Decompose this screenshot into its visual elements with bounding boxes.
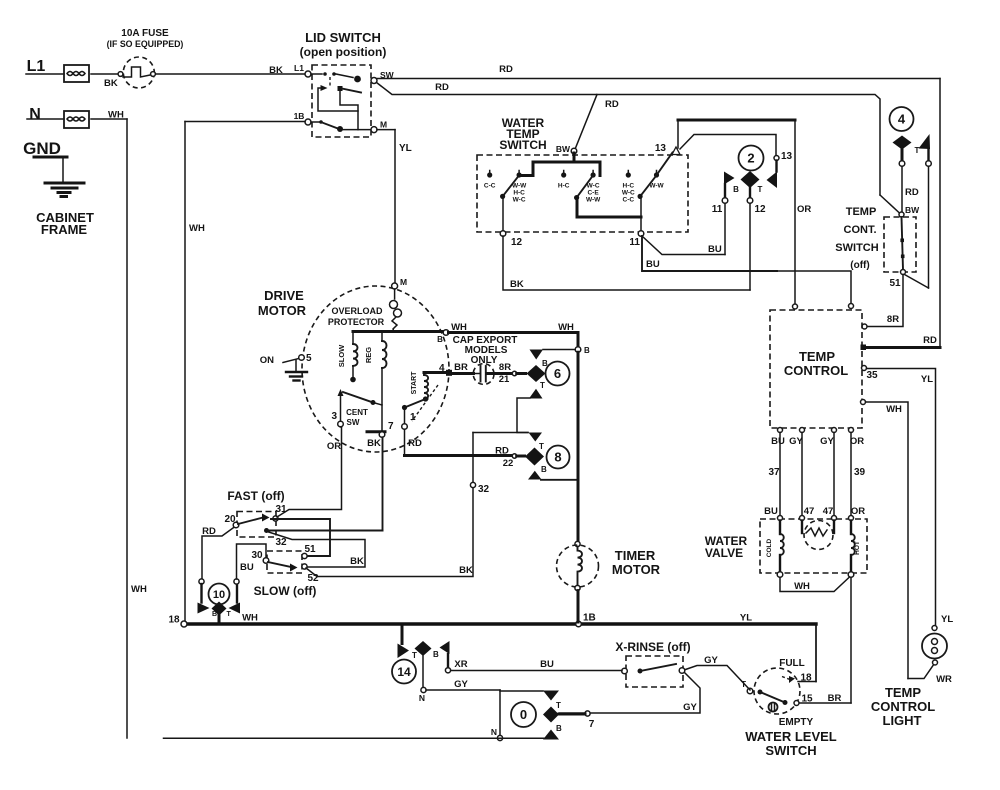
- svg-text:WH: WH: [131, 584, 147, 595]
- svg-text:C-C: C-C: [623, 197, 635, 204]
- svg-text:SWITCH: SWITCH: [765, 743, 816, 758]
- svg-text:M: M: [400, 277, 407, 287]
- svg-text:B: B: [556, 724, 562, 733]
- svg-text:BK: BK: [367, 438, 381, 449]
- svg-text:RD: RD: [202, 526, 216, 537]
- svg-text:B: B: [437, 335, 443, 344]
- svg-text:WH: WH: [242, 613, 258, 624]
- svg-text:18: 18: [168, 615, 180, 626]
- svg-text:30: 30: [251, 550, 263, 561]
- svg-text:52: 52: [307, 573, 319, 584]
- svg-text:BU: BU: [764, 506, 778, 517]
- svg-text:W-W: W-W: [586, 197, 601, 204]
- svg-text:WH: WH: [189, 223, 205, 234]
- svg-text:BK: BK: [459, 565, 473, 576]
- svg-text:8R: 8R: [887, 314, 899, 325]
- svg-text:GY: GY: [789, 436, 803, 447]
- svg-text:YL: YL: [740, 613, 752, 624]
- svg-text:YL: YL: [941, 614, 953, 625]
- svg-text:GND: GND: [23, 139, 61, 158]
- svg-text:FAST (off): FAST (off): [227, 489, 284, 503]
- svg-text:18: 18: [800, 673, 812, 684]
- svg-text:22: 22: [503, 458, 514, 469]
- svg-text:H-C: H-C: [558, 183, 570, 190]
- svg-text:WH: WH: [886, 404, 902, 415]
- svg-text:BR: BR: [454, 362, 468, 373]
- svg-text:2: 2: [747, 151, 754, 166]
- svg-text:4: 4: [898, 112, 906, 127]
- svg-text:BK: BK: [269, 65, 283, 76]
- svg-text:TEMP: TEMP: [885, 685, 921, 700]
- svg-text:WH: WH: [451, 322, 467, 333]
- svg-text:OR: OR: [327, 441, 341, 452]
- svg-text:MOTOR: MOTOR: [612, 562, 661, 577]
- svg-text:SLOW (off): SLOW (off): [254, 584, 317, 598]
- svg-text:1B: 1B: [294, 111, 305, 121]
- svg-text:BU: BU: [771, 436, 785, 447]
- svg-text:0: 0: [520, 707, 527, 722]
- svg-text:W-W: W-W: [649, 183, 664, 190]
- svg-text:WATER LEVEL: WATER LEVEL: [745, 729, 837, 744]
- svg-text:12: 12: [754, 204, 766, 215]
- svg-text:TIMER: TIMER: [615, 548, 656, 563]
- svg-text:X-RINSE (off): X-RINSE (off): [615, 640, 690, 654]
- svg-text:RD: RD: [905, 187, 919, 198]
- svg-text:OR: OR: [850, 436, 864, 447]
- svg-text:12: 12: [511, 237, 523, 248]
- svg-text:SWITCH: SWITCH: [499, 138, 546, 152]
- svg-text:OVERLOAD: OVERLOAD: [331, 306, 383, 316]
- svg-text:39: 39: [854, 467, 866, 478]
- svg-text:COLD: COLD: [766, 538, 773, 557]
- svg-text:47: 47: [823, 506, 834, 517]
- svg-text:8: 8: [554, 450, 561, 465]
- svg-text:T: T: [412, 651, 417, 660]
- svg-text:DRIVE: DRIVE: [264, 288, 304, 303]
- svg-text:YL: YL: [399, 143, 412, 154]
- svg-text:GY: GY: [820, 436, 834, 447]
- svg-text:CONTROL: CONTROL: [784, 363, 848, 378]
- svg-text:10: 10: [213, 589, 225, 601]
- svg-text:WR: WR: [936, 674, 952, 685]
- svg-text:M: M: [380, 120, 387, 130]
- svg-text:47: 47: [804, 506, 815, 517]
- svg-text:BU: BU: [240, 562, 254, 573]
- svg-text:37: 37: [768, 467, 780, 478]
- svg-text:RD: RD: [923, 335, 937, 346]
- svg-text:GY: GY: [704, 655, 718, 666]
- svg-text:51: 51: [304, 544, 316, 555]
- svg-text:11: 11: [712, 204, 723, 215]
- svg-text:13: 13: [781, 151, 793, 162]
- svg-text:GY: GY: [683, 702, 697, 713]
- svg-text:T: T: [758, 185, 763, 194]
- svg-text:C-E: C-E: [587, 190, 599, 197]
- svg-text:N: N: [29, 106, 41, 123]
- svg-text:XR: XR: [454, 659, 467, 670]
- svg-text:REG: REG: [364, 347, 373, 363]
- svg-text:14: 14: [397, 665, 411, 679]
- svg-text:H-C: H-C: [513, 190, 525, 197]
- svg-text:SWITCH: SWITCH: [835, 242, 878, 254]
- svg-text:BW: BW: [905, 205, 920, 215]
- svg-text:BU: BU: [708, 244, 722, 255]
- svg-text:FULL: FULL: [779, 658, 805, 669]
- svg-text:W-C: W-C: [587, 183, 600, 190]
- svg-text:T: T: [915, 146, 920, 155]
- svg-text:T: T: [540, 381, 545, 390]
- svg-text:BR: BR: [828, 693, 842, 704]
- svg-text:OR: OR: [797, 204, 811, 215]
- svg-text:51: 51: [889, 278, 901, 289]
- svg-text:21: 21: [499, 374, 510, 385]
- svg-text:N: N: [491, 727, 497, 737]
- svg-text:GY: GY: [454, 679, 468, 690]
- svg-text:LIGHT: LIGHT: [883, 713, 922, 728]
- svg-text:BK: BK: [510, 279, 524, 290]
- svg-text:35: 35: [867, 370, 879, 381]
- svg-text:6: 6: [554, 366, 561, 381]
- svg-text:RD: RD: [495, 446, 509, 457]
- svg-text:OR: OR: [851, 506, 865, 517]
- svg-text:15: 15: [801, 694, 813, 705]
- svg-text:13: 13: [655, 143, 667, 154]
- svg-text:(open position): (open position): [300, 45, 387, 59]
- svg-text:N: N: [419, 693, 425, 703]
- svg-text:YL: YL: [921, 374, 933, 385]
- svg-text:(off): (off): [850, 260, 869, 271]
- svg-text:L1: L1: [27, 58, 46, 75]
- svg-text:32: 32: [275, 537, 287, 548]
- svg-text:WH: WH: [558, 322, 574, 333]
- svg-text:B: B: [733, 185, 739, 194]
- svg-text:T: T: [539, 442, 544, 451]
- svg-text:CONT.: CONT.: [844, 224, 877, 236]
- svg-text:7: 7: [589, 719, 595, 730]
- svg-text:10A FUSE: 10A FUSE: [121, 28, 169, 39]
- svg-text:ON: ON: [260, 355, 274, 366]
- svg-text:T: T: [227, 611, 232, 618]
- svg-text:8R: 8R: [499, 362, 511, 373]
- svg-text:CENT: CENT: [346, 408, 368, 417]
- svg-text:11: 11: [629, 237, 640, 248]
- svg-text:5: 5: [306, 353, 312, 364]
- svg-text:TEMP: TEMP: [846, 206, 877, 218]
- svg-text:BU: BU: [540, 659, 554, 670]
- svg-text:RD: RD: [499, 64, 513, 75]
- svg-text:RD: RD: [408, 438, 422, 449]
- svg-text:SLOW: SLOW: [337, 344, 346, 367]
- svg-text:SW: SW: [347, 418, 360, 427]
- svg-text:1B: 1B: [583, 613, 596, 624]
- svg-text:T: T: [556, 701, 561, 710]
- svg-text:PROTECTOR: PROTECTOR: [328, 317, 385, 327]
- svg-text:BK: BK: [104, 78, 118, 89]
- svg-text:H-C: H-C: [623, 183, 635, 190]
- svg-text:W-W: W-W: [512, 183, 527, 190]
- svg-text:MOTOR: MOTOR: [258, 303, 307, 318]
- svg-text:W-C: W-C: [622, 190, 635, 197]
- svg-text:HOT: HOT: [854, 541, 861, 555]
- svg-text:BK: BK: [350, 556, 364, 567]
- svg-text:W-C: W-C: [513, 197, 526, 204]
- svg-text:TEMP: TEMP: [799, 349, 835, 364]
- svg-text:B: B: [541, 465, 547, 474]
- svg-text:FRAME: FRAME: [41, 222, 88, 237]
- svg-text:B: B: [584, 346, 590, 355]
- svg-text:7: 7: [388, 421, 394, 432]
- svg-text:BU: BU: [646, 259, 660, 270]
- svg-text:32: 32: [478, 484, 490, 495]
- svg-text:B: B: [433, 650, 439, 659]
- svg-text:EMPTY: EMPTY: [779, 717, 814, 728]
- svg-text:START: START: [411, 371, 418, 395]
- svg-text:C-C: C-C: [484, 183, 496, 190]
- svg-text:4: 4: [439, 363, 445, 374]
- svg-text:LID SWITCH: LID SWITCH: [305, 30, 381, 45]
- svg-text:31: 31: [275, 504, 287, 515]
- svg-text:L1: L1: [294, 63, 304, 73]
- svg-text:CONTROL: CONTROL: [871, 699, 935, 714]
- svg-text:RD: RD: [435, 82, 449, 93]
- svg-text:WH: WH: [794, 581, 810, 592]
- svg-text:VALVE: VALVE: [705, 546, 743, 560]
- svg-text:(IF SO EQUIPPED): (IF SO EQUIPPED): [107, 39, 184, 49]
- svg-text:20: 20: [224, 514, 236, 525]
- svg-text:BW: BW: [556, 144, 571, 154]
- svg-text:3: 3: [331, 411, 337, 422]
- svg-text:ONLY: ONLY: [471, 355, 498, 366]
- svg-text:RD: RD: [605, 99, 619, 110]
